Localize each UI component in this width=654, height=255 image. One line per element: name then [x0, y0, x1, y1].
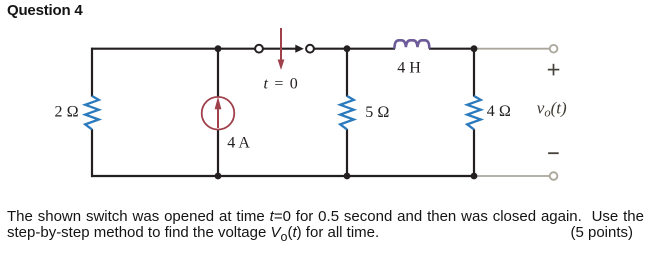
- current source I1 arrow: [215, 97, 222, 128]
- current source I1 circle: [202, 97, 235, 130]
- node dot top A (current source): [215, 45, 222, 52]
- current source I1 branch wire lower: [217, 130, 219, 176]
- resistor R1 2 ohm: [85, 96, 99, 129]
- wire top rail right segment (inductor to node B): [429, 48, 474, 50]
- node dot bottom C: [471, 173, 478, 180]
- resistor R3 4 ohm branch wire lower: [473, 129, 475, 176]
- resistor R3 4 ohm branch wire upper: [473, 49, 475, 97]
- svg-text:vo(t): vo(t): [537, 99, 567, 120]
- svg-text:4 A: 4 A: [227, 134, 250, 151]
- resistor R2 5 ohm branch wire upper: [346, 49, 348, 97]
- label plus sign: [548, 64, 560, 76]
- wire left rail upper: [91, 48, 93, 97]
- problem statement: [7, 209, 644, 245]
- output terminal top: [550, 45, 558, 53]
- resistor R2 5 ohm branch wire lower: [346, 129, 348, 176]
- wire top rail middle segment (switch to inductor): [310, 48, 395, 50]
- label minus sign: [548, 152, 559, 154]
- resistor R3 4 ohm: [467, 96, 481, 129]
- output terminal bottom: [550, 172, 558, 180]
- wire bottom rail: [91, 175, 474, 177]
- wire output lead bottom (gray): [474, 175, 550, 177]
- inductor L1 4 H: [394, 40, 429, 48]
- node dot top C (4 ohm / output): [471, 45, 478, 52]
- switch S1 right contact: [306, 45, 314, 53]
- node dot bottom A: [215, 173, 222, 180]
- switch S1 left contact: [255, 45, 263, 53]
- node dot bottom B: [344, 173, 351, 180]
- wire top rail left segment: [92, 48, 259, 50]
- svg-text:5 Ω: 5 Ω: [365, 104, 389, 121]
- wire left rail lower: [91, 129, 93, 177]
- node dot top B (5 ohm): [344, 45, 351, 52]
- wire output lead top (gray): [474, 48, 550, 50]
- svg-text:t = 0: t = 0: [264, 75, 299, 92]
- title: [7, 2, 83, 19]
- resistor R2 5 ohm: [340, 96, 354, 129]
- current source I1 branch wire upper: [217, 49, 219, 97]
- switch actuation arrow (red, t=0): [278, 28, 285, 70]
- switch S1 blade with arrow: [262, 45, 304, 53]
- svg-text:2 Ω: 2 Ω: [55, 103, 79, 120]
- svg-text:4 H: 4 H: [397, 60, 421, 77]
- svg-text:4 Ω: 4 Ω: [487, 103, 511, 120]
